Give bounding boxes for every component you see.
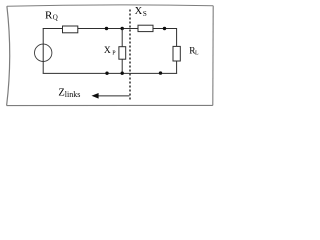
node dot right port top <box>163 27 166 30</box>
resistor R_Q box <box>63 26 78 33</box>
node dot left port bottom <box>105 72 108 75</box>
wire top right (X_S to corner) <box>153 28 177 30</box>
svg-text:S: S <box>143 10 147 18</box>
bottom wire <box>43 72 177 74</box>
X_P branch wire bottom <box>121 59 123 73</box>
border frame bottom edge <box>7 104 213 106</box>
svg-text:R: R <box>45 9 53 21</box>
right branch wire bottom <box>176 61 178 74</box>
border frame right edge <box>212 6 214 106</box>
voltage source Q circle <box>35 44 52 61</box>
border frame top edge <box>7 5 213 6</box>
svg-text:L: L <box>195 51 199 57</box>
node dot X_P top junction <box>121 27 124 30</box>
svg-text:links: links <box>65 90 81 99</box>
svg-text:X: X <box>135 6 143 17</box>
node dot X_P bottom junction <box>121 72 124 75</box>
svg-text:Q: Q <box>53 14 58 22</box>
wire top middle (R_Q to X_S) <box>78 28 138 30</box>
dashed separation line <box>129 10 131 102</box>
voltage source Q vertical line / left branch wire <box>42 29 44 74</box>
node dot left port top <box>105 27 108 30</box>
reactance X_P box <box>119 47 126 60</box>
Z_links arrow line <box>98 95 129 97</box>
svg-text:X: X <box>104 46 111 56</box>
node dot right port bottom <box>159 71 162 74</box>
reactance X_S box <box>138 25 153 31</box>
right branch wire top <box>176 28 178 46</box>
border frame left edge <box>7 6 10 105</box>
Z_links arrow head <box>92 93 99 99</box>
resistor R_L box <box>173 46 180 61</box>
wire top left (source to R_Q) <box>43 28 63 30</box>
X_P branch wire top <box>121 29 123 47</box>
